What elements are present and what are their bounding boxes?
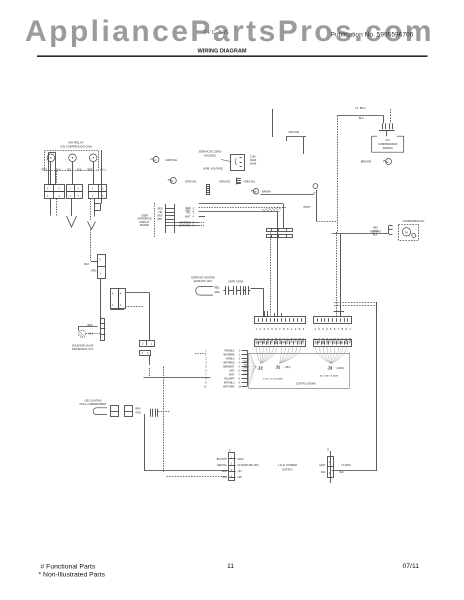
wire pair below connector 3 with jog	[90, 199, 92, 221]
svg-text:-24' C S-IS: -24' C S-IS	[202, 30, 229, 36]
defrost wire down to board	[263, 289, 265, 317]
harness left dashed stub	[195, 353, 206, 355]
svg-text:RED: RED	[243, 371, 248, 373]
solenoid coil to connector wires	[86, 333, 101, 335]
wire to defrost thermostat	[261, 194, 314, 196]
svg-text:MOLDED: MOLDED	[204, 154, 216, 158]
svg-text:DISPENSING SYS.: DISPENSING SYS.	[72, 348, 94, 351]
ground symbol 2	[170, 178, 176, 184]
wire dashed from relay down	[56, 171, 58, 184]
lamp dashed stub	[158, 411, 169, 413]
wire long dashed vertical left	[337, 116, 339, 232]
svg-text:WHT: WHT	[373, 231, 379, 233]
compressor connector pair 2 top	[67, 185, 83, 192]
dashed riser lower left	[163, 367, 165, 472]
J3 fan curves	[315, 346, 346, 363]
J1 fan curves	[280, 346, 302, 363]
svg-text:ORG: ORG	[214, 291, 220, 294]
control board outline	[249, 353, 350, 388]
svg-text:NOM. VOLTAGE: NOM. VOLTAGE	[203, 167, 223, 171]
svg-text:BLK: BLK	[373, 235, 378, 237]
chassis ground symbol	[236, 178, 238, 185]
svg-text:WHT: WHT	[157, 219, 163, 221]
wire long right vertical	[376, 302, 378, 471]
fuse element	[207, 185, 210, 195]
defrost wire right	[251, 288, 264, 290]
wire bar to block solid	[277, 212, 279, 317]
svg-text:BRN/OR: BRN/OR	[361, 159, 372, 163]
wire bar to block dashed	[270, 231, 272, 317]
svg-text:S/R RELAY: S/R RELAY	[68, 141, 83, 145]
svg-text:LED: LED	[238, 477, 243, 479]
svg-text:GRN/YEL: GRN/YEL	[185, 180, 197, 184]
compressor dashed outline	[45, 151, 99, 171]
defrost thermostat	[313, 184, 318, 189]
svg-text:L.E.D. POWER: L.E.D. POWER	[278, 463, 297, 467]
svg-text:BRN/WHT: BRN/WHT	[223, 366, 235, 369]
condenser fan motor dashed box	[399, 225, 419, 241]
svg-text:WHT: WHT	[185, 215, 191, 218]
A/C compressor wiring box	[372, 136, 404, 152]
wire lamp down	[144, 414, 146, 471]
LED supply connector	[229, 453, 235, 481]
connector 2-pin mid-left	[98, 255, 106, 279]
svg-text:RED: RED	[42, 168, 48, 172]
wire twin dashed right	[336, 232, 338, 317]
svg-text:Publication No. 5995596706: Publication No. 5995596706	[331, 32, 414, 39]
condenser fan bracket	[388, 226, 390, 235]
wire dashed cross 1	[334, 302, 377, 304]
svg-text:BRN/W: BRN/W	[262, 190, 271, 194]
svg-text:GRN/YEL: GRN/YEL	[244, 180, 256, 184]
svg-text:+5V: +5V	[238, 471, 243, 473]
svg-text:115V: 115V	[250, 155, 256, 159]
svg-text:(ON COMPRESSOR CAN): (ON COMPRESSOR CAN)	[60, 145, 91, 149]
UI connector ladder	[165, 204, 167, 233]
start relay body	[49, 153, 56, 185]
J2 fan curves	[257, 346, 277, 363]
lamp connector A	[111, 406, 119, 417]
svg-text:RED: RED	[88, 168, 94, 172]
svg-text:NOM.: NOM.	[250, 162, 257, 166]
wire to relay contacts	[383, 116, 385, 124]
svg-text:GRN/YEL: GRN/YEL	[166, 158, 178, 162]
wire pin1 dashed right	[125, 306, 144, 308]
svg-text:DEFR. TERM.: DEFR. TERM.	[228, 281, 244, 284]
dashed wire to LED supply	[167, 476, 227, 478]
wire connector down to solenoid valve	[100, 279, 102, 325]
svg-text:SPLICE: SPLICE	[289, 130, 300, 134]
UI bundle wire 3	[199, 211, 279, 213]
wire dashed below connector 1	[56, 199, 58, 216]
heater bar 1	[267, 229, 293, 232]
compressor terminal C	[89, 154, 97, 162]
wire to condenser fan	[332, 233, 389, 235]
UI bundle stubs	[199, 216, 205, 218]
connector J2/J1 top connector	[255, 317, 306, 324]
svg-text:PROT: PROT	[304, 205, 312, 209]
svg-text:CONDENSER FAN: CONDENSER FAN	[403, 220, 425, 223]
wire vertical splice feed	[272, 109, 274, 137]
svg-text:J3: J3	[328, 366, 333, 371]
wire below connector 1	[50, 199, 52, 216]
wire compressor to solenoid connector	[90, 229, 92, 261]
svg-text:1 2 3 4 5 6 7 8 9 1 2 3 4: 1 2 3 4 5 6 7 8 9 1 2 3 4	[256, 327, 305, 331]
svg-text:YEL: YEL	[67, 168, 72, 172]
compressor terminal S	[47, 154, 55, 162]
svg-text:RED: RED	[214, 286, 219, 289]
harness bracket	[247, 351, 249, 387]
wire bundle 1 drop	[283, 204, 285, 228]
svg-text:ORG: ORG	[243, 368, 248, 370]
svg-text:GRAY: GRAY	[319, 464, 326, 467]
svg-text:WHT/ORG: WHT/ORG	[179, 224, 191, 227]
compressor connector pair 2 bottom	[67, 192, 83, 199]
svg-text:YEL: YEL	[186, 212, 191, 215]
svg-text:CONTROL BOARD: CONTROL BOARD	[296, 383, 316, 386]
svg-text:SUPPLY: SUPPLY	[282, 468, 293, 472]
UI connector dashed edge	[154, 203, 156, 237]
connector J3 bottom connector	[314, 340, 352, 347]
thermostat wire down	[316, 197, 318, 222]
svg-text:A/C: A/C	[385, 138, 390, 142]
svg-text:5 VDC DC VOLTAGE: 5 VDC DC VOLTAGE	[263, 378, 283, 381]
plug 2-4	[140, 351, 151, 356]
ground symbol 1	[153, 157, 159, 163]
svg-text:ORG: ORG	[222, 471, 227, 473]
plug 2-1	[140, 341, 155, 347]
thermostat wire dashed right	[316, 221, 337, 223]
relay contacts	[382, 123, 384, 129]
svg-text:AC LINE VOLTAGE: AC LINE VOLTAGE	[320, 375, 339, 378]
compressor connector pair 1 top	[45, 185, 65, 192]
svg-text:YEL/WHT: YEL/WHT	[224, 377, 235, 380]
harness fan curves to J2	[248, 351, 257, 387]
svg-text:BRN: BRN	[136, 408, 141, 410]
wire bottom horizontal	[332, 470, 377, 472]
wire below plugs	[149, 355, 151, 365]
svg-text:CHILL COMPARTMENT: CHILL COMPARTMENT	[79, 403, 107, 406]
svg-text:ORG: ORG	[157, 216, 162, 218]
svg-text:AC MAINS (BK-WH): AC MAINS (BK-WH)	[238, 464, 259, 467]
thermal cutout contacts	[225, 286, 227, 295]
svg-text:RED: RED	[373, 227, 378, 229]
ground symbol 3	[253, 189, 259, 195]
solenoid connector strip	[101, 319, 105, 341]
arrow below connector 3	[88, 222, 96, 230]
svg-text:BLK: BLK	[84, 263, 89, 266]
svg-text:WIRING DIAGRAM: WIRING DIAGRAM	[198, 49, 247, 55]
wire from terminal S down	[50, 162, 52, 184]
compressor connector pair 3 bottom	[89, 192, 107, 199]
svg-text:WIRING: WIRING	[383, 146, 393, 150]
wire solid stub	[334, 311, 344, 313]
connector J2/J1 bottom connector	[255, 340, 306, 347]
contacts bar	[379, 130, 395, 132]
stub wires above J2/J1	[264, 311, 266, 317]
svg-text:BLK: BLK	[340, 472, 345, 474]
connector 4-1 pair A	[111, 289, 119, 309]
defrost heater loop	[196, 287, 213, 296]
lamp pins	[150, 409, 152, 417]
svg-text:PNK/BLK: PNK/BLK	[224, 350, 235, 353]
svg-text:J2: J2	[258, 366, 263, 371]
solenoid coil	[78, 330, 85, 337]
svg-text:11: 11	[227, 563, 234, 570]
svg-text:YEL: YEL	[158, 212, 163, 214]
svg-text:RED/YEL: RED/YEL	[217, 465, 228, 467]
svg-text:BLK: BLK	[359, 117, 364, 120]
svg-text:(120V): (120V)	[337, 367, 345, 370]
fan motor symbol	[386, 159, 392, 165]
wire from terminal C down	[93, 162, 95, 184]
svg-text:ORG: ORG	[136, 413, 141, 415]
wire twin solid right	[340, 234, 342, 317]
UI bundle wire 2 dashed	[199, 207, 287, 209]
svg-text:RED: RED	[158, 209, 163, 211]
compressor terminal R	[69, 154, 77, 162]
svg-text:WHT/BLU: WHT/BLU	[224, 381, 235, 384]
connector J3 top connector	[314, 317, 352, 324]
svg-text:GRAY: GRAY	[238, 458, 245, 461]
svg-text:GRY: GRY	[229, 369, 235, 372]
svg-text:WHT/RED: WHT/RED	[223, 362, 234, 365]
svg-text:ORG: ORG	[91, 270, 97, 273]
svg-text:BLK: BLK	[321, 472, 326, 474]
connector 4-1 pair B	[119, 289, 126, 309]
svg-text:WHT/ORG: WHT/ORG	[223, 385, 235, 388]
service cord receptacle	[231, 155, 245, 171]
svg-text:LT. BLU: LT. BLU	[355, 106, 365, 110]
svg-text:1 2 3 4 5 6 7 8 9 1: 1 2 3 4 5 6 7 8 9 1	[314, 327, 351, 331]
wire to LED supply	[144, 470, 229, 472]
svg-text:COMPRESSOR: COMPRESSOR	[378, 142, 397, 146]
svg-text:J1: J1	[276, 365, 281, 370]
heater bar 2	[267, 235, 293, 238]
main lower horizontal wire	[144, 377, 211, 379]
svg-text:WHT/BRN: WHT/BRN	[223, 354, 234, 357]
svg-text:WHT: WHT	[229, 373, 235, 376]
wire dashed cross 2	[334, 305, 377, 307]
svg-text:BLK: BLK	[89, 333, 94, 336]
UI bundle wire 1	[199, 203, 284, 205]
arrow to evaporator below connector 2	[67, 216, 77, 227]
UI lower rung wires	[165, 222, 198, 224]
output connector	[330, 451, 332, 483]
wire down to 2-1 plug	[149, 293, 151, 340]
splice bracket	[286, 136, 306, 138]
compressor connector pair 3 top	[89, 185, 107, 192]
svg-text:BLU: BLU	[56, 168, 61, 172]
svg-text:07/11: 07/11	[403, 563, 420, 570]
wire LT BLU horizontal	[338, 115, 384, 117]
wire right edge down	[101, 150, 103, 184]
svg-text:* Non-Illustrated Parts: * Non-Illustrated Parts	[39, 571, 106, 578]
svg-text:(15V): (15V)	[285, 366, 291, 369]
svg-text:(RADIANT) 120V: (RADIANT) 120V	[194, 280, 213, 283]
leader line	[221, 160, 231, 162]
svg-text:BLU: BLU	[223, 477, 228, 479]
svg-text:LT GRAY: LT GRAY	[342, 464, 352, 467]
svg-text:RED: RED	[87, 324, 92, 327]
header rule	[37, 55, 428, 57]
svg-text:SERVICE CORD: SERVICE CORD	[199, 150, 223, 154]
svg-text:DEFROST HEATER: DEFROST HEATER	[191, 276, 215, 280]
lamp connector B	[125, 406, 133, 417]
svg-text:60HZ: 60HZ	[250, 158, 257, 162]
wire pin4 right	[125, 292, 150, 294]
svg-text:GRN/YEL: GRN/YEL	[219, 180, 231, 184]
svg-text:OR/BLK: OR/BLK	[226, 358, 235, 361]
wire from terminal R down	[72, 162, 74, 184]
lamp loop	[93, 408, 107, 415]
relay dashed drop	[390, 109, 392, 124]
svg-text:BLK/WHT: BLK/WHT	[217, 459, 228, 461]
wire under connector	[110, 309, 124, 311]
solenoid wire top	[78, 326, 98, 328]
compressor connector pair 1 bottom	[45, 192, 65, 199]
svg-text:# Functional Parts: # Functional Parts	[41, 564, 96, 571]
svg-text:BOARD: BOARD	[140, 224, 149, 227]
splice hatch	[262, 207, 281, 213]
svg-text:BLK: BLK	[77, 168, 82, 172]
